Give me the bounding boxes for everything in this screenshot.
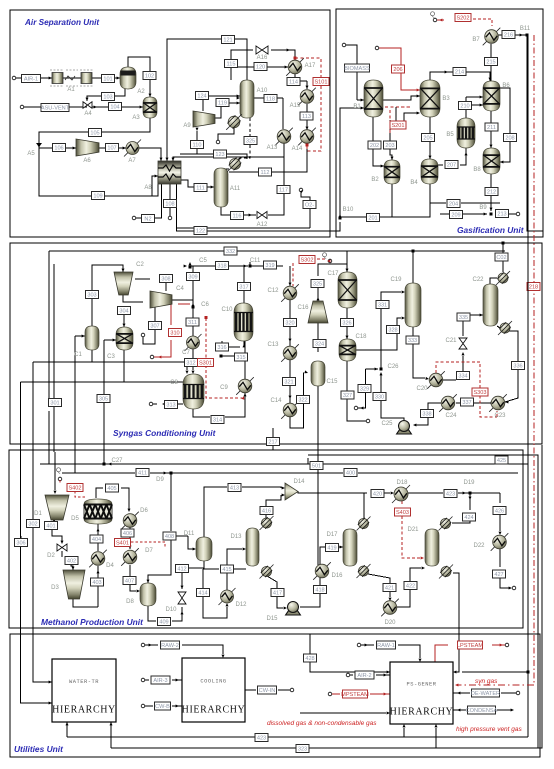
label A14 xyxy=(292,146,303,152)
svg-text:C23: C23 xyxy=(494,413,506,419)
stream 417 xyxy=(271,589,284,597)
wire 501 line xyxy=(308,458,528,464)
svg-text:Q: Q xyxy=(430,11,435,18)
label C3 xyxy=(107,354,115,360)
stream 105 xyxy=(89,129,102,137)
svg-text:338: 338 xyxy=(422,412,431,418)
wire PS bottom xyxy=(403,724,438,748)
stream S201 red xyxy=(390,121,406,129)
svg-text:Q: Q xyxy=(322,252,327,259)
hatch D13 top xyxy=(260,516,274,530)
svg-text:404: 404 xyxy=(92,537,101,543)
wire A9 to 124 to A10 xyxy=(203,95,240,112)
svg-text:D12: D12 xyxy=(235,602,247,608)
stream 324 xyxy=(313,340,326,348)
svg-text:305: 305 xyxy=(99,397,108,403)
wire top long 332 xyxy=(49,250,505,252)
label A15 xyxy=(290,103,301,109)
wire A11 bottom to 116 to A12 xyxy=(221,207,256,217)
stream 501 xyxy=(310,462,323,470)
label Utilities Unit xyxy=(14,744,64,754)
wire O2 junction B10 up to B1 xyxy=(339,107,365,220)
wire A5 to 106 to A6 xyxy=(39,147,76,150)
red label hp vent xyxy=(456,726,523,733)
svg-text:208: 208 xyxy=(505,136,514,142)
svg-text:209: 209 xyxy=(451,213,460,219)
wire C26 junction xyxy=(366,368,383,386)
wire A2 bottom to 103 to A4 xyxy=(86,89,126,101)
stream CONDENSA xyxy=(466,706,498,714)
wire MPSTEAM xyxy=(328,692,390,696)
svg-text:317: 317 xyxy=(239,285,248,291)
vessel B2 xyxy=(384,160,400,184)
svg-text:D18: D18 xyxy=(396,480,408,486)
label C6 xyxy=(201,302,209,308)
label B4 xyxy=(410,180,418,186)
stream AIR-1 xyxy=(22,75,41,83)
vessel D8 xyxy=(140,583,156,606)
svg-text:Methanol Production Unit: Methanol Production Unit xyxy=(41,617,144,627)
wire 305 line xyxy=(103,362,105,464)
svg-text:A8: A8 xyxy=(144,185,152,191)
compressor D3 xyxy=(63,570,85,599)
wire AIR-1 feed xyxy=(12,76,120,80)
flash drum A2 xyxy=(120,67,136,89)
red label syn gas xyxy=(475,678,498,685)
red dashed syn gas xyxy=(455,684,534,687)
wire C5 junction xyxy=(189,262,194,310)
svg-text:417: 417 xyxy=(273,591,282,597)
svg-text:122: 122 xyxy=(196,229,205,235)
label A5 xyxy=(27,151,35,157)
cooler C12 xyxy=(281,284,299,302)
heater D16 xyxy=(313,562,331,580)
wire B5 top 210 to B6 xyxy=(466,104,483,119)
stream 332 xyxy=(224,247,237,255)
svg-text:201: 201 xyxy=(368,216,377,222)
svg-text:406: 406 xyxy=(123,531,132,537)
svg-text:412: 412 xyxy=(177,567,186,573)
svg-text:S201: S201 xyxy=(391,123,404,129)
svg-text:214: 214 xyxy=(455,70,464,76)
svg-text:211: 211 xyxy=(487,125,496,131)
svg-text:323: 323 xyxy=(298,747,307,753)
svg-text:335: 335 xyxy=(459,315,468,321)
wire RAW-2 xyxy=(141,643,224,658)
wire B6 top 215 to B7 xyxy=(490,41,493,81)
wire C23 to 337 to C24 xyxy=(456,402,494,405)
red dashed S101 loop xyxy=(294,57,322,152)
svg-text:Q: Q xyxy=(56,467,61,474)
svg-text:A14: A14 xyxy=(292,146,303,152)
label C9 xyxy=(220,385,228,391)
wire C2 to 308 to C4 xyxy=(123,279,150,302)
wire A5 node xyxy=(36,143,42,148)
svg-text:107: 107 xyxy=(107,146,116,152)
svg-text:307: 307 xyxy=(150,324,159,330)
wire ASU-VENT out xyxy=(20,105,87,109)
svg-text:120: 120 xyxy=(256,65,265,71)
packed column C10 xyxy=(234,303,253,341)
wire D18 423 D19 xyxy=(408,492,500,495)
svg-text:D17: D17 xyxy=(326,532,338,538)
stream 114 xyxy=(287,78,300,86)
label D21 xyxy=(407,527,419,533)
stream 330 xyxy=(373,393,386,401)
svg-text:C6: C6 xyxy=(201,302,209,308)
stream 406 xyxy=(121,529,134,537)
svg-text:318: 318 xyxy=(217,264,226,270)
stream 218 red xyxy=(527,283,540,291)
svg-text:N2: N2 xyxy=(144,217,151,223)
wire B1 bottom 202 to B2 xyxy=(373,117,384,168)
stream O2 label xyxy=(303,201,316,209)
svg-text:D4: D4 xyxy=(106,563,114,569)
svg-text:321: 321 xyxy=(284,380,293,386)
wire A14 bottom to 112 wire xyxy=(240,143,307,172)
wire B3 bottom 205 to B4 xyxy=(429,117,432,159)
hatch D17 bottom xyxy=(357,564,371,578)
air cooler HC2 xyxy=(228,157,243,172)
wire D1 top feed xyxy=(54,452,57,494)
wire biomass feed xyxy=(342,43,364,101)
label C2 xyxy=(136,262,144,268)
wire D11 in xyxy=(178,536,196,551)
label C21 xyxy=(445,338,457,344)
svg-text:218: 218 xyxy=(529,285,538,291)
hatch D13 bottom xyxy=(260,565,274,579)
stream 338 xyxy=(421,410,434,418)
svg-text:325: 325 xyxy=(313,282,322,288)
wire 119 to A10 xyxy=(214,102,240,119)
svg-text:C11: C11 xyxy=(250,258,261,264)
red S302 Q xyxy=(293,252,332,286)
svg-text:402: 402 xyxy=(67,559,76,565)
stream 335 xyxy=(457,313,470,321)
wire WATER-TR inputs xyxy=(46,681,52,683)
wire 112 to A11 region xyxy=(229,171,240,173)
wire 209 to B9 xyxy=(440,213,487,216)
svg-text:D16: D16 xyxy=(331,573,343,579)
label C13 xyxy=(267,342,279,348)
label B2 xyxy=(371,177,379,183)
svg-text:101: 101 xyxy=(103,77,112,83)
vessel B4 xyxy=(421,159,438,184)
svg-text:205: 205 xyxy=(423,136,432,142)
wire C4 to 309 up xyxy=(172,269,193,300)
svg-text:Syngas Conditioning Unit: Syngas Conditioning Unit xyxy=(113,428,217,438)
stream 318 xyxy=(216,262,229,270)
cooler A15 xyxy=(298,88,316,106)
svg-text:B6: B6 xyxy=(502,83,510,89)
svg-text:336: 336 xyxy=(513,364,522,370)
svg-text:115: 115 xyxy=(227,62,236,68)
svg-text:DE-WATER: DE-WATER xyxy=(471,691,500,697)
svg-text:426: 426 xyxy=(495,509,504,515)
svg-text:104: 104 xyxy=(110,105,119,111)
svg-text:309: 309 xyxy=(188,275,197,281)
label A10 xyxy=(257,88,268,94)
wire C24 to 338 xyxy=(428,403,441,409)
label C22 xyxy=(472,277,484,283)
wire C8 bottom 314 xyxy=(193,393,247,417)
wire 428 line xyxy=(310,634,390,674)
label C4 xyxy=(176,286,184,292)
wire C20 to 334 to C21 xyxy=(443,352,465,380)
svg-text:314: 314 xyxy=(213,418,222,424)
svg-text:C5: C5 xyxy=(199,258,207,264)
svg-text:212: 212 xyxy=(487,190,496,196)
svg-text:C10: C10 xyxy=(221,307,233,313)
svg-text:A11: A11 xyxy=(230,186,241,192)
wire 307 line xyxy=(141,302,155,344)
svg-text:S303: S303 xyxy=(473,390,486,396)
svg-text:113: 113 xyxy=(302,114,311,120)
wire Q S402 xyxy=(56,467,165,548)
svg-text:420: 420 xyxy=(373,492,382,498)
cooler C14 xyxy=(281,401,299,419)
label A9 xyxy=(183,123,191,129)
stream 322 xyxy=(297,396,310,404)
svg-text:C2: C2 xyxy=(136,262,144,268)
wire C18 right via 328 to C19 xyxy=(356,317,405,351)
svg-text:HIERARCHY: HIERARCHY xyxy=(52,705,116,716)
stream 122 xyxy=(194,227,207,235)
svg-text:119: 119 xyxy=(218,101,227,107)
wire C21 to C22 xyxy=(463,314,483,337)
wire C11 up to 317 xyxy=(244,262,250,303)
svg-text:dissolved gas & non-condensabl: dissolved gas & non-condensable gas xyxy=(267,720,377,727)
unit box Utilities Unit xyxy=(10,634,540,757)
wire D22 427 out xyxy=(500,549,516,590)
wire 313 out xyxy=(149,402,183,406)
wire D8 top to 408 junction xyxy=(147,575,149,583)
stream 331 xyxy=(376,301,389,309)
label C8 xyxy=(170,380,178,386)
svg-text:A3: A3 xyxy=(132,115,140,121)
stream 204 xyxy=(447,200,460,208)
wire C3 top xyxy=(118,307,126,327)
svg-text:327: 327 xyxy=(343,393,352,399)
label A16 xyxy=(257,55,268,61)
mixer D14 xyxy=(285,483,298,500)
stream 328 xyxy=(387,326,400,334)
svg-text:310: 310 xyxy=(170,331,179,337)
svg-text:106: 106 xyxy=(54,146,63,152)
svg-text:HIERARCHY: HIERARCHY xyxy=(390,707,454,718)
heater D20 xyxy=(381,599,399,617)
stream 305 xyxy=(97,395,110,403)
stream N2 xyxy=(142,215,155,223)
label C12 xyxy=(267,288,279,294)
svg-text:320: 320 xyxy=(285,321,294,327)
wire D19 424 D21hatch xyxy=(452,493,472,523)
air cooler HC1 xyxy=(226,114,242,130)
svg-text:BIOMASS: BIOMASS xyxy=(344,66,370,72)
svg-text:C26: C26 xyxy=(387,364,399,370)
reactor D5 horizontal xyxy=(84,499,112,524)
svg-text:304: 304 xyxy=(119,309,128,315)
wire 121 long from A10 top xyxy=(166,39,248,161)
stream 106 xyxy=(53,144,66,152)
svg-text:408: 408 xyxy=(165,534,174,540)
label A13 xyxy=(267,145,278,151)
label C15 xyxy=(326,379,338,385)
label C19 xyxy=(390,277,402,283)
svg-text:Gasification Unit: Gasification Unit xyxy=(457,225,525,235)
valve A12 xyxy=(257,212,267,219)
svg-text:C25: C25 xyxy=(381,421,393,427)
stream 420 xyxy=(371,490,384,498)
svg-text:419: 419 xyxy=(327,546,336,552)
wire C5 to 318 to C11 xyxy=(184,265,252,268)
stream 206 red xyxy=(392,65,405,73)
svg-text:311: 311 xyxy=(188,320,197,326)
label A2 xyxy=(137,89,145,95)
svg-text:326: 326 xyxy=(342,321,351,327)
stream 208 xyxy=(504,134,517,142)
red dashed S303 xyxy=(436,362,497,417)
svg-text:A16: A16 xyxy=(257,55,268,61)
wire B2 bottom down xyxy=(391,184,393,217)
svg-text:322: 322 xyxy=(298,398,307,404)
vessel B6 xyxy=(483,81,500,111)
svg-text:B5: B5 xyxy=(446,132,454,138)
wire C16 bottom 324 xyxy=(317,323,319,352)
stream 115 xyxy=(225,60,238,68)
wire CW-B xyxy=(141,704,182,708)
wire PS top red to LPSTEAM xyxy=(435,643,509,662)
svg-text:S403: S403 xyxy=(396,510,409,516)
wire D14 out 420 D18 xyxy=(298,491,394,495)
svg-text:WATER-TR: WATER-TR xyxy=(69,679,99,685)
wire D8 bottom 409 D10 xyxy=(148,606,184,621)
stream 325 asu xyxy=(244,137,257,145)
stream 412 xyxy=(176,565,189,573)
hatch D21 top xyxy=(439,517,453,531)
svg-text:B8: B8 xyxy=(473,167,481,173)
svg-text:C24: C24 xyxy=(445,413,457,419)
svg-text:306: 306 xyxy=(16,541,25,547)
wire C15 bottom long xyxy=(317,386,319,565)
wire D11 bottom 412 D10 xyxy=(181,561,205,589)
svg-text:328: 328 xyxy=(388,328,397,334)
wire 118 to A10 xyxy=(237,97,283,130)
wire A15 top from 114 xyxy=(306,81,309,89)
wire D4 to 404 to D5 xyxy=(97,524,100,551)
label A12 xyxy=(257,222,268,228)
wire A15 to 113 to A14 xyxy=(306,104,309,130)
stream 414 xyxy=(197,589,210,597)
svg-text:O2-: O2- xyxy=(305,203,314,209)
stream 214 xyxy=(453,68,466,76)
stream MPSTEAM red xyxy=(341,690,369,698)
svg-text:403: 403 xyxy=(92,580,101,586)
svg-text:121: 121 xyxy=(223,38,232,44)
label D16 xyxy=(331,573,343,579)
stream CW-IN xyxy=(258,686,277,694)
wire C11 to 319 xyxy=(244,265,283,268)
stream 103 xyxy=(102,93,115,101)
stream 423 util xyxy=(255,734,268,742)
compressor D1 xyxy=(45,495,69,520)
stream 401 xyxy=(45,522,58,530)
svg-text:105: 105 xyxy=(90,131,99,137)
label D3 xyxy=(51,585,59,591)
svg-text:D22: D22 xyxy=(473,543,485,549)
vessel D11 xyxy=(196,537,212,561)
wire 117 down from A12 xyxy=(268,193,284,215)
stream 327 xyxy=(341,391,354,399)
svg-text:C18: C18 xyxy=(355,334,367,340)
stream 301 xyxy=(49,399,62,407)
wire A9 in 110 xyxy=(196,128,199,148)
stream AIR-3 xyxy=(151,676,170,684)
heater C23 xyxy=(489,394,507,412)
svg-text:400: 400 xyxy=(346,471,355,477)
label D19 xyxy=(463,480,475,486)
stream 421 xyxy=(383,584,396,592)
svg-text:302: 302 xyxy=(28,522,37,528)
svg-text:C12: C12 xyxy=(267,288,279,294)
svg-text:216: 216 xyxy=(504,33,513,39)
svg-text:116: 116 xyxy=(233,214,242,220)
stream 333 xyxy=(406,336,419,344)
svg-text:427: 427 xyxy=(494,572,503,578)
stream ASU-VENT xyxy=(41,104,70,112)
wire C25 up 330 xyxy=(380,372,405,420)
stream 124 xyxy=(196,92,209,100)
stream 308 xyxy=(160,275,173,283)
svg-text:A1: A1 xyxy=(67,87,75,93)
label D22 xyxy=(473,543,485,549)
stream 317 xyxy=(238,283,251,291)
svg-text:C27: C27 xyxy=(111,458,123,464)
wire 203 U path xyxy=(396,107,420,125)
svg-text:MPSTEAM: MPSTEAM xyxy=(341,692,369,698)
stream 303 xyxy=(86,291,99,299)
svg-text:A10: A10 xyxy=(257,88,268,94)
wire D3 to 403 to D4 xyxy=(73,566,100,607)
stream 315 xyxy=(235,353,248,361)
boiler B5 xyxy=(457,118,475,148)
wire HC2 link xyxy=(221,168,229,169)
wire D1 to 401 to D2 xyxy=(52,520,64,544)
svg-text:325: 325 xyxy=(246,139,255,145)
wire A8 bottom O2 line xyxy=(177,184,341,231)
svg-text:A5: A5 xyxy=(27,151,35,157)
wire 117 top to A8 xyxy=(172,157,285,161)
svg-text:B2: B2 xyxy=(371,177,379,183)
label Air Separation Unit xyxy=(24,18,99,27)
stream DE-WATER xyxy=(471,689,500,697)
heater C9 xyxy=(236,377,254,395)
column D17 xyxy=(343,529,357,566)
wire 123 h xyxy=(180,148,247,159)
wire utilities bottom 423 xyxy=(66,722,529,737)
svg-text:A9: A9 xyxy=(183,123,191,129)
vessel B8 xyxy=(483,148,500,174)
svg-text:414: 414 xyxy=(198,591,207,597)
cooler D7 xyxy=(121,548,139,566)
wire y362 xyxy=(33,350,189,374)
svg-text:B1: B1 xyxy=(353,104,361,110)
stream 107 xyxy=(106,144,119,152)
valve D10 vertical xyxy=(178,592,186,604)
svg-text:Air Separation Unit: Air Separation Unit xyxy=(24,18,99,27)
svg-text:331: 331 xyxy=(378,303,387,309)
wire C13 to 321 to C14 xyxy=(289,360,292,403)
